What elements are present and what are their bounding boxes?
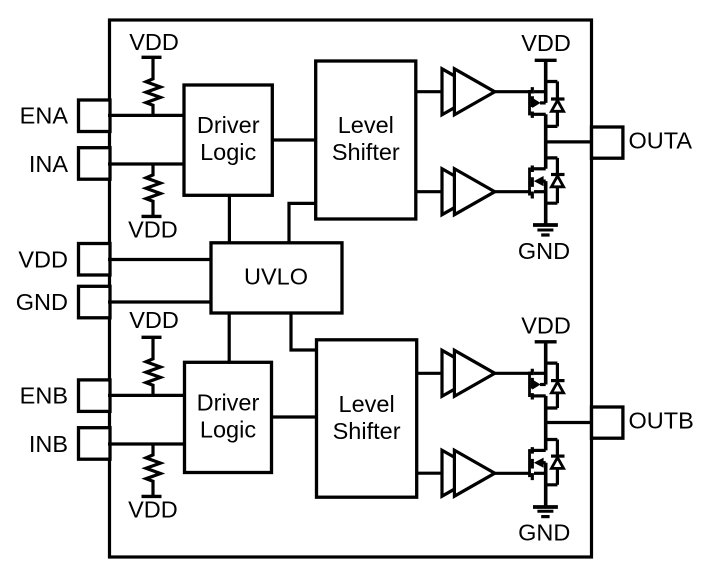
svg-text:INA: INA — [29, 151, 69, 177]
buffer U4 (low-side driver B) — [442, 450, 495, 496]
svg-text:VDD: VDD — [521, 312, 571, 338]
resistor R4 (INB pull-up) — [146, 444, 161, 496]
pin GND label — [16, 289, 68, 315]
transistor Q3 (PMOS high-side B) — [530, 369, 546, 400]
wire Level Shifter B to buffer U4 — [417, 472, 442, 475]
pin GND box — [79, 286, 111, 318]
pin ENA label — [20, 102, 69, 128]
body diode D4 — [546, 440, 565, 485]
svg-text:VDD: VDD — [18, 246, 68, 272]
svg-text:Shifter: Shifter — [332, 139, 400, 165]
svg-text:Level: Level — [338, 112, 394, 138]
VDD rail bar output stage B — [535, 340, 557, 343]
transistor Q1 (PMOS high-side A) — [530, 87, 546, 118]
wire UVLO to Level Shifter A — [289, 203, 316, 242]
transistor Q4 (NMOS low-side B) — [530, 447, 546, 480]
svg-text:Logic: Logic — [200, 139, 256, 165]
block Driver Logic A — [184, 85, 272, 195]
block UVLO — [211, 243, 342, 313]
body diode D3 — [546, 363, 565, 408]
svg-text:GND: GND — [518, 238, 570, 264]
body diode D1 — [546, 82, 565, 127]
wire output node B to OUTB pin — [546, 421, 592, 424]
svg-text:UVLO: UVLO — [244, 263, 308, 289]
pin ENB box — [79, 380, 111, 412]
block Driver Logic B — [185, 362, 272, 472]
wire GND to UVLO — [108, 300, 211, 303]
wire INB to Driver Logic B — [108, 442, 185, 445]
svg-text:ENB: ENB — [20, 382, 68, 408]
wire buffer U1 to PMOS Q1 gate — [495, 90, 531, 93]
VDD label output stage A — [521, 30, 571, 56]
pin OUTB label — [629, 407, 694, 433]
buffer U1 (high-side driver A) — [442, 69, 495, 115]
svg-text:Logic: Logic — [200, 417, 256, 443]
buffer U2 (low-side driver A) — [442, 169, 495, 215]
IC boundary box — [110, 20, 592, 557]
wire INA to Driver Logic A — [108, 162, 184, 165]
VDD rail bar output stage A — [535, 59, 557, 62]
wire Level Shifter A to buffer U1 — [416, 90, 442, 93]
wire UVLO to Level Shifter B — [291, 313, 317, 350]
wire Level Shifter A to buffer U2 — [416, 190, 442, 193]
wire output node A to OUTA pin — [546, 140, 592, 143]
transistor Q2 (NMOS low-side A) — [530, 166, 546, 199]
VDD rail bar above resistor R1 — [142, 56, 162, 59]
VDD label below resistor R2 — [128, 217, 178, 243]
svg-text:INB: INB — [29, 431, 68, 457]
svg-text:VDD: VDD — [129, 29, 179, 55]
wire buffer U3 to PMOS Q3 gate — [495, 372, 531, 375]
wire ENB to Driver Logic B — [108, 394, 185, 397]
wire ENA to Driver Logic A — [108, 114, 184, 117]
block Level Shifter B — [317, 340, 417, 497]
svg-text:Level: Level — [339, 391, 395, 417]
wire UVLO to Driver Logic B — [228, 313, 231, 362]
ground symbol output stage B — [533, 507, 558, 517]
svg-text:ENA: ENA — [20, 102, 69, 128]
VDD rail bar above resistor R3 — [142, 336, 162, 339]
resistor R1 (ENA pull-up) — [146, 57, 161, 115]
pin OUTA label — [629, 127, 693, 153]
svg-text:OUTB: OUTB — [629, 407, 694, 433]
VDD label above resistor R3 — [129, 307, 179, 333]
svg-text:VDD: VDD — [129, 307, 179, 333]
svg-text:GND: GND — [16, 289, 68, 315]
pin VDD label — [18, 246, 68, 272]
wire Driver Logic A to Level Shifter A — [272, 138, 315, 141]
wire Level Shifter B to buffer U3 — [417, 372, 442, 375]
svg-text:VDD: VDD — [128, 497, 178, 523]
VDD label output stage B — [521, 312, 571, 338]
GND label output stage B — [518, 520, 570, 546]
pin INA label — [29, 151, 69, 177]
VDD label below resistor R4 — [128, 497, 178, 523]
wire Driver Logic A to UVLO — [228, 195, 231, 243]
pin INB box — [79, 428, 111, 460]
VDD label above resistor R1 — [129, 29, 179, 55]
svg-text:GND: GND — [518, 520, 570, 546]
pin OUTA box — [592, 127, 623, 158]
pin OUTB box — [592, 407, 623, 438]
wire VDD to UVLO — [108, 258, 211, 261]
ground symbol output stage A — [533, 225, 558, 235]
wire buffer U4 to NMOS Q4 gate — [495, 472, 531, 475]
svg-text:Shifter: Shifter — [333, 418, 401, 444]
pin ENA box — [79, 100, 111, 132]
resistor R3 (ENB pull-up) — [146, 337, 161, 395]
buffer U3 (high-side driver B) — [442, 350, 495, 396]
pin INA box — [79, 148, 111, 180]
pin ENB label — [20, 382, 68, 408]
wire Driver Logic B to Level Shifter B — [272, 415, 317, 418]
VDD rail bar below resistor R4 — [142, 495, 162, 498]
pin VDD box — [79, 244, 111, 276]
svg-text:Driver: Driver — [197, 390, 260, 416]
wire drain-source column output stage A — [544, 60, 548, 225]
VDD rail bar below resistor R2 — [142, 215, 162, 218]
resistor R2 (INA pull-up) — [146, 164, 161, 216]
svg-text:OUTA: OUTA — [629, 127, 693, 153]
pin INB label — [29, 431, 68, 457]
wire drain-source column output stage B — [544, 342, 548, 507]
block Level Shifter A — [316, 61, 416, 219]
wire buffer U2 to NMOS Q2 gate — [495, 190, 531, 193]
svg-text:Driver: Driver — [197, 112, 260, 138]
GND label output stage A — [518, 238, 570, 264]
svg-text:VDD: VDD — [128, 217, 178, 243]
body diode D2 — [546, 158, 565, 203]
svg-text:VDD: VDD — [521, 30, 571, 56]
